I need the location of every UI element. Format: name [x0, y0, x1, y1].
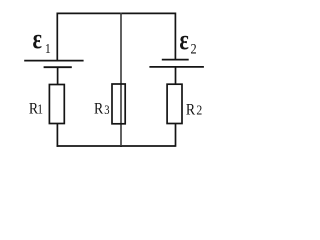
wire left vertical lower [56, 124, 58, 147]
wire right vertical between E2 and R2 [175, 67, 177, 84]
svg-text:2: 2 [196, 103, 202, 118]
svg-text:R: R [186, 102, 196, 119]
wire top horizontal [57, 12, 176, 14]
wire right vertical upper [174, 13, 176, 60]
wire bottom horizontal [57, 145, 176, 147]
resistor R1 [49, 85, 64, 124]
battery E2 short plate [162, 59, 189, 61]
svg-text:ε: ε [33, 22, 42, 54]
resistor R2 [167, 84, 182, 123]
node junction top middle [120, 13, 122, 15]
battery E1 short plate [44, 66, 72, 68]
svg-text:3: 3 [104, 103, 109, 117]
wire right vertical lower [175, 124, 177, 147]
resistor R3 [112, 84, 125, 124]
svg-text:2: 2 [191, 40, 197, 56]
wire left vertical between E1 and R1 [57, 67, 59, 84]
svg-text:1: 1 [37, 102, 43, 117]
svg-text:ε: ε [179, 23, 188, 55]
svg-text:1: 1 [45, 40, 51, 56]
wire middle vertical through R3 [120, 13, 122, 147]
wire left vertical upper [56, 13, 58, 61]
svg-text:R: R [94, 100, 104, 117]
battery E2 long plate [149, 66, 204, 68]
node junction bottom middle [120, 145, 122, 147]
battery E1 long plate [24, 60, 83, 62]
